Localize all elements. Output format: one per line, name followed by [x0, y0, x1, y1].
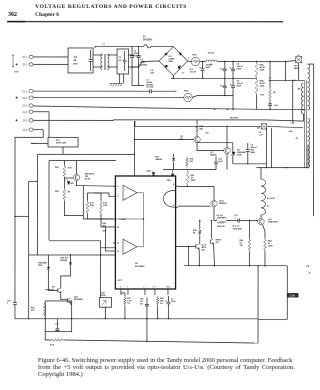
wire x258 down long	[257, 266, 259, 343]
wire D10 top	[47, 255, 49, 267]
label Q1 part	[179, 139, 184, 141]
capacitor C7A reservoir	[199, 62, 204, 79]
resistor R7	[269, 88, 272, 100]
svg-text:J1-1: J1-1	[22, 90, 27, 93]
label C11	[220, 86, 224, 88]
junction rail at 270	[269, 61, 270, 62]
wire to T1 primary top	[269, 79, 304, 81]
svg-text:5%: 5%	[140, 303, 143, 305]
zener D11	[231, 152, 236, 155]
label pot	[101, 292, 106, 297]
wire C9 bottom lead	[247, 158, 249, 164]
wire bottom long 2	[160, 341, 258, 343]
label R5B	[260, 81, 266, 88]
label R5A	[260, 64, 266, 72]
svg-text:250V: 250V	[237, 69, 242, 71]
wire x49 to U2	[49, 241, 115, 248]
wire Q2 collector up	[226, 126, 228, 147]
fuse F1	[144, 45, 152, 48]
junction Q6 col	[211, 220, 212, 221]
connector J1-6	[22, 128, 33, 132]
resistor R44	[264, 238, 267, 251]
svg-text:COM: COM	[289, 295, 295, 298]
wire y255 horizontal	[29, 254, 116, 256]
U2 left pin number 13	[117, 251, 119, 253]
resistor R5B	[255, 78, 258, 95]
capacitor C13 drive	[235, 219, 243, 223]
wire J1-2 long	[33, 97, 184, 99]
capacitor C1	[89, 50, 93, 71]
resistor R29	[63, 188, 66, 201]
junction bus x147	[146, 318, 147, 319]
label LOW DIM	[233, 226, 242, 231]
label C8 cap	[259, 132, 264, 137]
wire choke bottom to box2	[107, 66, 117, 68]
wire L5 to C13	[226, 220, 235, 222]
capacitor C16	[145, 298, 149, 311]
wire J1-6 down left	[15, 130, 43, 297]
capacitor C19b	[13, 297, 17, 319]
diode CR7	[172, 158, 175, 160]
wire q area v1	[173, 154, 175, 158]
wire bottom long	[64, 340, 160, 342]
junction Q1 base rail	[134, 139, 135, 140]
U2 internal wiring	[115, 193, 144, 247]
label T2 4t	[267, 205, 270, 208]
svg-text:TRG: TRG	[167, 180, 172, 182]
wire rail corner down	[285, 62, 287, 81]
junction at 285	[285, 61, 286, 62]
wire T2 to Q11	[260, 215, 262, 218]
svg-text:J2-2: J2-2	[22, 64, 27, 67]
wire y163 link	[233, 163, 267, 165]
svg-text:1 COMP: 1 COMP	[118, 219, 126, 221]
svg-text:RAD: RAD	[251, 151, 256, 154]
wire R11 left	[31, 142, 48, 144]
transistor Q2	[224, 147, 230, 153]
svg-text:1N4148: 1N4148	[60, 259, 68, 262]
junction Q5 em bus	[199, 265, 200, 266]
label RT1	[193, 55, 198, 57]
U2 bottom pin labels	[120, 286, 171, 288]
junction midtap 270	[269, 77, 270, 78]
svg-text:1%: 1%	[160, 303, 163, 305]
wire R26 top	[199, 221, 201, 229]
junction R46 top	[249, 220, 250, 221]
label U2 TRG	[167, 180, 172, 182]
junction bus x168.6	[168, 318, 169, 319]
capacitor C5	[230, 62, 235, 79]
wire x100 down to pot	[100, 248, 102, 298]
junction x100 y255	[100, 254, 101, 255]
wire caps bottom join	[132, 66, 139, 68]
transistor Q14	[73, 174, 79, 180]
wire Q11 emitter down	[262, 225, 265, 239]
label D9	[60, 256, 69, 262]
long horizontal y154	[38, 153, 135, 155]
wire R37 bottom	[124, 306, 126, 319]
wire sec line y127	[267, 126, 303, 127]
transistor Q6	[210, 239, 213, 244]
wire RT1 to L2	[200, 61, 206, 63]
inductor L2	[206, 60, 217, 62]
thermistor RT1	[191, 57, 199, 65]
junction y167 t2	[266, 167, 267, 168]
wire com stub	[286, 294, 288, 296]
capacitor C9	[246, 143, 250, 158]
test point TP1 label	[294, 55, 300, 70]
wire R34 top to U2 pin3	[94, 193, 113, 196]
label TH1	[260, 95, 265, 97]
label R32	[50, 343, 55, 346]
junction caps bottom	[131, 66, 132, 67]
wire TP1 down	[298, 63, 300, 81]
resistor R38	[156, 296, 159, 306]
label U2 DT pin	[117, 279, 122, 282]
wire U2 pin8 to Q3	[178, 185, 214, 187]
label C6	[237, 81, 244, 88]
stub y216 with dot	[15, 215, 29, 217]
wire pot down	[104, 307, 106, 319]
transformer T1 secondary winding upper	[308, 64, 310, 110]
svg-text:GND: GND	[166, 287, 171, 289]
U2 left pin 1	[113, 185, 115, 187]
wire x287 down	[286, 266, 288, 320]
U2 left pin number 15	[117, 243, 119, 245]
transistor Q10	[67, 298, 70, 303]
svg-text:4.7K: 4.7K	[50, 343, 55, 346]
svg-text:115V: 115V	[14, 71, 19, 73]
choke L1 winding B	[107, 54, 109, 70]
wire cap leg 2	[138, 67, 140, 86]
junction R44 bus	[264, 265, 265, 266]
resistor R18	[196, 124, 199, 134]
junction bus x125	[124, 318, 125, 319]
svg-text:250V: 250V	[237, 86, 242, 88]
running head chapter	[35, 12, 59, 18]
choke L1 label	[102, 42, 105, 45]
label bus2 right	[290, 123, 295, 125]
wire q area v2	[173, 162, 175, 170]
wire Q5 collector	[199, 236, 201, 245]
capacitor C14	[165, 296, 170, 310]
resistor R30	[43, 303, 46, 316]
wire J1-5 short	[33, 119, 113, 121]
wire cap leg 1	[131, 67, 133, 86]
svg-text:4 DT: 4 DT	[117, 279, 122, 282]
label Q9	[45, 289, 55, 291]
wire J1-1 long	[33, 90, 146, 92]
junction tap bottom	[292, 120, 293, 121]
label R25	[55, 167, 60, 169]
connector J1-3	[22, 104, 33, 108]
wire R44 to bus	[264, 251, 266, 266]
capacitor C20	[55, 319, 59, 332]
label Q10	[74, 296, 84, 301]
label D6 near vertex	[190, 69, 197, 74]
transistor Q9	[58, 288, 61, 293]
label R29	[55, 191, 60, 193]
svg-text:1/2W: 1/2W	[268, 246, 273, 248]
svg-text:J1-4: J1-4	[22, 111, 27, 114]
inductor L5	[217, 217, 226, 219]
transformer T1 secondary winding lower	[308, 118, 310, 168]
wire q5 r45 to bus	[197, 265, 199, 267]
junction bus x45	[45, 318, 46, 319]
capacitor C2	[123, 51, 127, 71]
wire Q1 emitter to zener	[197, 142, 233, 144]
control box outer	[36, 154, 38, 255]
junction T1 top wire 2	[294, 80, 295, 81]
resistor R34	[86, 200, 89, 214]
wire top rail left	[95, 45, 143, 47]
label bridge plus	[188, 57, 190, 60]
U2 left pin number 2	[117, 186, 118, 188]
wire C4 to RT2 top	[156, 90, 176, 92]
junction bus1 x270	[269, 109, 270, 110]
label Q14	[85, 173, 95, 180]
label D8 tp	[257, 128, 260, 130]
capacitor C11	[223, 78, 227, 95]
running head title	[35, 4, 187, 10]
wire R29 segment	[63, 178, 65, 188]
capacitor C7	[268, 100, 272, 109]
label C19	[7, 300, 12, 305]
label LED	[70, 183, 75, 185]
long horizontal y160	[49, 160, 116, 162]
potentiometer R36	[99, 298, 111, 308]
wire R34 bottom	[87, 214, 113, 219]
wire RT2 right	[192, 96, 233, 98]
label U2	[135, 263, 139, 265]
label R30	[31, 307, 36, 312]
IC U2 box	[115, 176, 175, 289]
wire down to RT2	[175, 90, 177, 93]
opto-isolator U3A diode	[150, 170, 155, 175]
svg-text:250VAC: 250VAC	[134, 54, 142, 57]
diode D10	[47, 267, 50, 269]
resistor R24	[217, 221, 226, 223]
choke core line 2	[104, 54, 106, 70]
label C1 value 3	[73, 63, 78, 65]
wire R29 bottom path	[64, 201, 83, 216]
junction bus1 x214	[214, 109, 215, 110]
label R7	[273, 92, 276, 94]
wire U2 pin9 to Q3 base	[178, 205, 210, 207]
header horizontal rule	[7, 21, 283, 23]
wire C6 top from ac	[232, 94, 234, 97]
line filter box 2	[117, 49, 129, 74]
connector J2-2	[22, 63, 33, 67]
label C3b	[140, 58, 148, 66]
svg-text:45.2K: 45.2K	[260, 66, 266, 69]
wire long y265	[184, 265, 287, 267]
junction x258	[257, 265, 258, 266]
wire J2-1 to filter box	[33, 56, 68, 58]
label COM block	[287, 293, 298, 298]
wire Q10 emitter to box edge	[70, 303, 71, 305]
svg-text:POW: POW	[101, 295, 106, 297]
label R35	[103, 201, 108, 207]
wire J1-3 long bus line 1	[33, 106, 305, 109]
wire y167 horizontal	[256, 167, 308, 169]
wire bridge bottom to midtap	[172, 75, 174, 78]
label C1 value 2	[73, 60, 77, 62]
svg-text:1/2W: 1/2W	[260, 86, 265, 88]
label R24	[217, 225, 225, 228]
svg-text:200V: 200V	[206, 67, 211, 69]
junction tap top	[292, 80, 293, 81]
junction x134 y154	[134, 154, 135, 155]
wire x267 vertical	[271, 128, 273, 168]
svg-text:Copyright 1984.): Copyright 1984.)	[38, 371, 83, 378]
junction switch node	[286, 167, 287, 168]
wire zener bottom lead	[232, 156, 234, 164]
wire box1 top to rail	[94, 46, 96, 48]
label R25 val	[68, 166, 73, 169]
svg-text:250V: 250V	[73, 63, 78, 65]
junction bus x71	[71, 318, 72, 319]
wire Q6 collector	[210, 221, 212, 239]
LED D12	[65, 179, 70, 184]
wire Q5 emitter	[198, 249, 200, 266]
U2 right pin 9 number	[173, 205, 175, 207]
connector J1-5	[22, 119, 33, 123]
svg-text:100 uH: 100 uH	[190, 72, 197, 74]
label C7	[274, 105, 279, 107]
U2 left pin 2	[113, 195, 115, 197]
junction C10 top	[224, 61, 225, 62]
junction Q6 em bus	[214, 265, 215, 266]
junction J1-2 mark	[16, 97, 18, 99]
svg-text:R5A: R5A	[260, 64, 265, 67]
connector J1-4	[22, 110, 33, 114]
label Q2	[210, 152, 217, 157]
wire R46 bottom	[248, 252, 250, 266]
svg-text:13: 13	[117, 251, 119, 253]
svg-text:4 AMP: 4 AMP	[169, 58, 176, 61]
svg-text:250VAC: 250VAC	[140, 63, 148, 66]
label D11	[237, 150, 246, 157]
drive transformer T2 winding	[261, 179, 266, 215]
wire T1 bottom to switch node	[307, 145, 309, 168]
figure caption	[38, 357, 295, 378]
resistor R35	[100, 200, 103, 214]
U2 left pin 5	[113, 242, 115, 244]
wire y85 link	[132, 85, 144, 87]
wire Q6 emitter	[213, 244, 216, 266]
wire C13 to Q11 base	[243, 220, 258, 222]
thermistor RT2	[184, 93, 192, 101]
label Q9 name	[52, 286, 56, 288]
svg-text:R8 270K: R8 270K	[230, 118, 238, 120]
svg-text:U3A: U3A	[146, 169, 151, 172]
label C4	[146, 85, 154, 88]
wire to U2 pin 13	[106, 250, 113, 252]
wire rail to TP junction	[269, 61, 271, 63]
resistor R37	[124, 296, 127, 306]
feedback vertical x28	[28, 181, 30, 318]
svg-text:R-2 1.0: R-2 1.0	[233, 226, 240, 228]
resistor R32	[52, 339, 64, 342]
junction C5 top	[232, 61, 233, 62]
wire U2 to Q5 base	[176, 246, 196, 248]
wire Q2 emitter down	[226, 154, 228, 170]
wire Q14 emitter to U2 pin2	[83, 185, 113, 188]
resistor R5A	[255, 62, 258, 79]
label C1 value	[74, 57, 78, 59]
U2 left pin 3	[113, 218, 115, 220]
wire T2 top	[260, 168, 262, 179]
wire cluster top	[63, 161, 65, 165]
label R33	[102, 223, 107, 228]
vert x108 wire	[105, 227, 107, 251]
svg-text:1%: 1%	[127, 303, 130, 305]
label plus5 arrow	[308, 271, 311, 275]
svg-text:1/2W: 1/2W	[260, 70, 265, 72]
label C7 filter	[146, 79, 154, 86]
svg-text:6t LOOP: 6t LOOP	[267, 197, 276, 200]
label L2	[208, 53, 215, 55]
label C16	[140, 298, 145, 305]
svg-text:LED: LED	[70, 183, 75, 185]
U2 bottom pin x121	[120, 289, 122, 295]
junction C11 bottom	[224, 95, 225, 96]
label plus5	[306, 264, 310, 268]
svg-text:470R 1/2W: 470R 1/2W	[56, 142, 66, 145]
label RV2	[119, 57, 123, 59]
junction T1 top wire	[285, 80, 286, 81]
bus line 3	[135, 121, 261, 126]
resistor R19	[186, 170, 189, 186]
wire C5C6 mid tap	[171, 77, 256, 79]
label D10	[38, 261, 47, 267]
svg-text:MJE13005: MJE13005	[268, 222, 279, 224]
wire choke top to box2	[107, 54, 117, 56]
vertical line x134	[133, 121, 135, 176]
svg-text:J1-3: J1-3	[22, 105, 27, 108]
label R29 val	[67, 190, 70, 193]
wire D9 to Q9 top	[61, 265, 71, 288]
label C5	[237, 64, 244, 71]
wire C16 below bus	[146, 311, 148, 341]
svg-text:4 t: 4 t	[267, 205, 270, 208]
wire Q3 collector	[213, 186, 215, 200]
svg-text:LOW DIM: LOW DIM	[233, 228, 242, 230]
U2 left pin 6	[113, 250, 115, 252]
wire R35 bottom	[101, 214, 113, 227]
label R39	[102, 229, 106, 232]
wire J1-6 short	[33, 129, 43, 131]
wire J2-2 to filter box	[33, 63, 68, 65]
junction bus x28	[28, 318, 29, 319]
label U3A	[146, 169, 151, 172]
svg-text:2 W: 2 W	[205, 133, 209, 135]
svg-text:5A/250V: 5A/250V	[143, 38, 152, 41]
feedback horizontal y181	[29, 180, 38, 182]
wire R5B bottom	[256, 95, 258, 109]
label C20	[54, 323, 59, 325]
wire y319 seg	[258, 318, 287, 320]
label R19	[191, 175, 196, 182]
vert x49 down	[48, 161, 50, 241]
label T1	[298, 88, 301, 91]
label C8 snub	[150, 70, 155, 75]
wire R11 feed	[31, 142, 36, 144]
transformer T1 core	[305, 80, 307, 168]
U2 right pin 8	[176, 185, 178, 187]
bus line 2	[114, 120, 304, 121]
